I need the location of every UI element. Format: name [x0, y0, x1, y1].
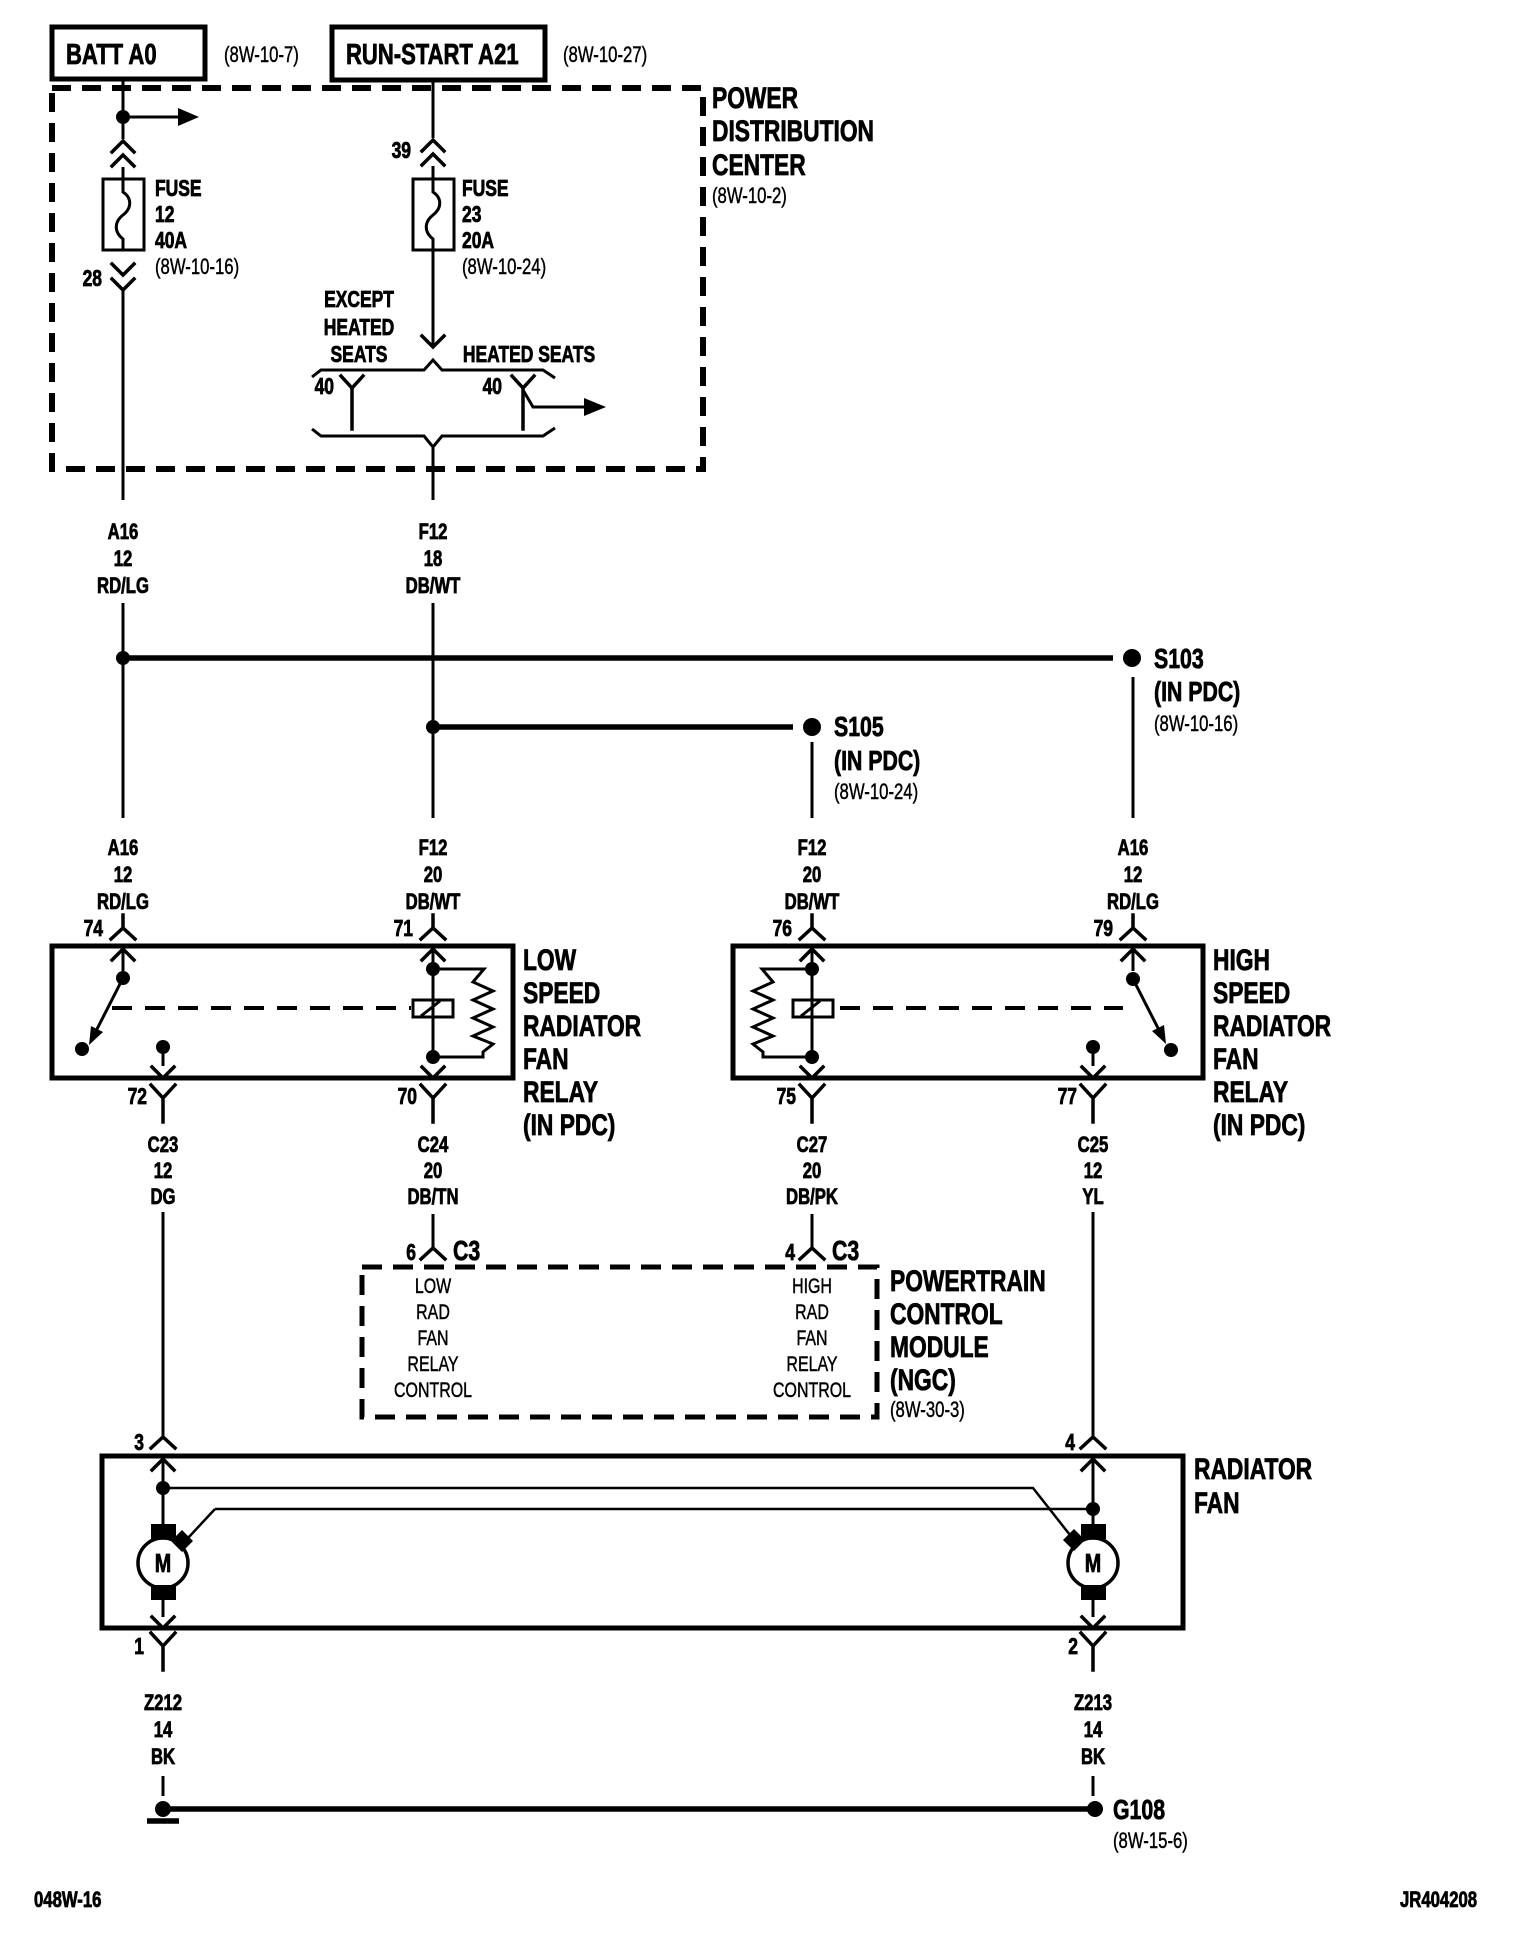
svg-text:FUSE: FUSE [155, 177, 202, 202]
svg-text:MODULE: MODULE [890, 1330, 989, 1364]
svg-text:RAD: RAD [795, 1300, 829, 1324]
svg-text:20: 20 [424, 863, 443, 888]
svg-text:RD/LG: RD/LG [1107, 890, 1159, 915]
svg-text:DB/TN: DB/TN [407, 1185, 458, 1210]
svg-text:12: 12 [114, 547, 133, 572]
svg-text:F12: F12 [419, 836, 448, 861]
svg-text:SPEED: SPEED [1213, 976, 1290, 1010]
svg-text:HEATED: HEATED [324, 316, 395, 341]
svg-text:RAD: RAD [416, 1300, 450, 1324]
svg-text:RADIATOR: RADIATOR [1194, 1452, 1312, 1486]
svg-text:23: 23 [462, 203, 481, 228]
svg-text:C23: C23 [148, 1133, 179, 1158]
svg-text:CONTROL: CONTROL [394, 1378, 472, 1402]
svg-text:F12: F12 [798, 836, 827, 861]
svg-text:FAN: FAN [523, 1042, 569, 1076]
svg-text:Z213: Z213 [1074, 1691, 1112, 1716]
svg-text:A16: A16 [108, 836, 139, 861]
svg-text:74: 74 [84, 917, 104, 942]
svg-text:20: 20 [803, 1159, 822, 1184]
svg-text:(IN PDC): (IN PDC) [1154, 676, 1240, 708]
svg-text:JR404208: JR404208 [1400, 1888, 1477, 1913]
svg-text:4: 4 [1065, 1431, 1075, 1456]
svg-text:12: 12 [1084, 1159, 1103, 1184]
svg-text:FAN: FAN [1213, 1042, 1259, 1076]
svg-text:RELAY: RELAY [1213, 1075, 1288, 1109]
svg-text:71: 71 [394, 917, 413, 942]
svg-text:M: M [155, 1548, 171, 1577]
svg-text:FAN: FAN [1194, 1486, 1240, 1520]
svg-text:(8W-10-16): (8W-10-16) [1154, 712, 1238, 737]
svg-text:(8W-10-7): (8W-10-7) [224, 43, 299, 68]
svg-text:RELAY: RELAY [407, 1352, 459, 1376]
svg-text:40: 40 [483, 375, 502, 400]
svg-text:75: 75 [777, 1085, 796, 1110]
svg-text:RADIATOR: RADIATOR [1213, 1009, 1331, 1043]
svg-text:HEATED SEATS: HEATED SEATS [463, 343, 595, 368]
svg-text:SPEED: SPEED [523, 976, 600, 1010]
svg-text:FAN: FAN [417, 1326, 448, 1350]
svg-text:RELAY: RELAY [786, 1352, 838, 1376]
svg-text:C24: C24 [418, 1133, 449, 1158]
svg-text:LOW: LOW [415, 1274, 452, 1298]
svg-text:12: 12 [155, 203, 174, 228]
svg-text:(8W-10-24): (8W-10-24) [462, 255, 546, 280]
svg-text:S105: S105 [834, 711, 884, 743]
svg-text:BK: BK [151, 1745, 175, 1770]
svg-text:POWER: POWER [712, 81, 798, 115]
svg-text:(8W-10-24): (8W-10-24) [834, 780, 918, 805]
svg-text:CONTROL: CONTROL [773, 1378, 851, 1402]
svg-text:C27: C27 [797, 1133, 828, 1158]
svg-text:40A: 40A [155, 229, 187, 254]
svg-text:POWERTRAIN: POWERTRAIN [890, 1264, 1046, 1298]
svg-text:40: 40 [315, 375, 334, 400]
svg-text:(8W-10-27): (8W-10-27) [563, 43, 647, 68]
svg-text:12: 12 [154, 1159, 173, 1184]
svg-text:F12: F12 [419, 520, 448, 545]
svg-text:M: M [1085, 1548, 1101, 1577]
svg-text:79: 79 [1094, 917, 1113, 942]
svg-text:CONTROL: CONTROL [890, 1297, 1003, 1331]
svg-text:14: 14 [154, 1718, 173, 1743]
svg-text:20A: 20A [462, 229, 494, 254]
svg-text:(IN PDC): (IN PDC) [1213, 1108, 1305, 1142]
svg-text:YL: YL [1082, 1185, 1103, 1210]
svg-text:70: 70 [398, 1085, 417, 1110]
svg-text:3: 3 [134, 1431, 144, 1456]
svg-text:Z212: Z212 [144, 1691, 182, 1716]
svg-text:CENTER: CENTER [712, 148, 806, 182]
svg-text:HIGH: HIGH [1213, 943, 1270, 977]
svg-text:DB/PK: DB/PK [786, 1185, 838, 1210]
svg-text:12: 12 [1124, 863, 1143, 888]
svg-text:DG: DG [150, 1185, 175, 1210]
svg-text:1: 1 [134, 1635, 144, 1660]
svg-text:4: 4 [785, 1241, 795, 1266]
svg-text:DB/WT: DB/WT [785, 890, 840, 915]
svg-text:048W-16: 048W-16 [34, 1888, 102, 1913]
svg-text:(8W-15-6): (8W-15-6) [1113, 1829, 1188, 1854]
svg-text:DB/WT: DB/WT [406, 890, 461, 915]
svg-text:(8W-10-16): (8W-10-16) [155, 255, 239, 280]
svg-text:76: 76 [773, 917, 792, 942]
svg-text:2: 2 [1068, 1635, 1078, 1660]
svg-text:S103: S103 [1154, 643, 1204, 675]
svg-text:RADIATOR: RADIATOR [523, 1009, 641, 1043]
svg-text:A16: A16 [108, 520, 139, 545]
svg-text:39: 39 [392, 139, 411, 164]
svg-text:18: 18 [424, 547, 443, 572]
svg-text:(8W-10-2): (8W-10-2) [712, 184, 787, 209]
svg-text:(NGC): (NGC) [890, 1363, 956, 1397]
svg-text:C25: C25 [1078, 1133, 1109, 1158]
svg-text:RD/LG: RD/LG [97, 574, 149, 599]
svg-text:72: 72 [128, 1085, 147, 1110]
svg-text:RELAY: RELAY [523, 1075, 598, 1109]
svg-text:C3: C3 [453, 1235, 480, 1267]
svg-text:HIGH: HIGH [792, 1274, 832, 1298]
svg-text:FAN: FAN [796, 1326, 827, 1350]
svg-text:SEATS: SEATS [331, 343, 388, 368]
svg-text:A16: A16 [1118, 836, 1149, 861]
svg-text:(IN PDC): (IN PDC) [523, 1108, 615, 1142]
svg-text:28: 28 [83, 267, 102, 292]
svg-text:G108: G108 [1113, 1794, 1165, 1826]
svg-text:EXCEPT: EXCEPT [324, 288, 394, 313]
svg-text:DISTRIBUTION: DISTRIBUTION [712, 114, 874, 148]
svg-text:C3: C3 [832, 1235, 859, 1267]
svg-text:77: 77 [1058, 1085, 1077, 1110]
svg-text:BK: BK [1081, 1745, 1105, 1770]
svg-text:(8W-30-3): (8W-30-3) [890, 1398, 965, 1423]
svg-text:12: 12 [114, 863, 133, 888]
svg-text:LOW: LOW [523, 943, 577, 977]
svg-text:FUSE: FUSE [462, 177, 509, 202]
svg-text:RD/LG: RD/LG [97, 890, 149, 915]
svg-text:DB/WT: DB/WT [406, 574, 461, 599]
svg-text:(IN PDC): (IN PDC) [834, 745, 920, 777]
svg-text:BATT A0: BATT A0 [66, 39, 157, 71]
svg-text:6: 6 [406, 1241, 416, 1266]
svg-text:RUN-START A21: RUN-START A21 [346, 39, 519, 71]
svg-text:20: 20 [424, 1159, 443, 1184]
svg-text:14: 14 [1084, 1718, 1103, 1743]
svg-text:20: 20 [803, 863, 822, 888]
